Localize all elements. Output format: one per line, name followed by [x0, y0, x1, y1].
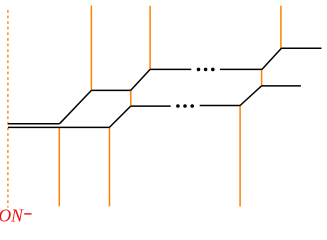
wire diagonal node V3 to node V4 — [240, 86, 261, 106]
wire mid right horizontal from node V3 — [262, 85, 301, 87]
wire diagonal node C to node D — [131, 69, 150, 90]
wire diagonal node F to node E — [109, 106, 130, 127]
wire diagonal node V2 to node V1 — [262, 48, 281, 69]
wire top right horizontal from node V1 — [281, 47, 321, 49]
D5 brane vertical down from node A — [58, 127, 60, 206]
wire double line bottom from ON-plane to node F — [8, 126, 109, 128]
D5 brane vertical up from node D — [149, 6, 151, 70]
wire double line top from ON-plane to node A — [8, 123, 60, 125]
wire lower horizontal right part to node V4 — [200, 105, 240, 107]
D5 brane vertical down from node V4 — [239, 106, 241, 207]
wire upper horizontal right part to node V2 — [220, 68, 262, 70]
D5 brane segment node C to node E — [130, 90, 132, 106]
label ON-minus — [0, 206, 32, 226]
D5 brane vertical up from node V1 — [280, 6, 282, 49]
D5 brane segment node V2 to node V3 — [261, 69, 263, 86]
D5 brane vertical up from node B — [90, 6, 92, 91]
wire upper horizontal left part from node D — [150, 68, 191, 70]
wire horizontal node B to node C — [91, 89, 130, 91]
ON-plane dashed orange line — [7, 10, 9, 208]
wire diagonal node A to node B — [60, 90, 92, 123]
wire lower horizontal left part from node E — [131, 105, 171, 107]
ellipsis dots upper — [197, 68, 215, 72]
D5 brane vertical down from node F — [109, 127, 111, 206]
svg-text:ON: ON — [0, 206, 24, 224]
ellipsis dots lower — [176, 104, 194, 108]
